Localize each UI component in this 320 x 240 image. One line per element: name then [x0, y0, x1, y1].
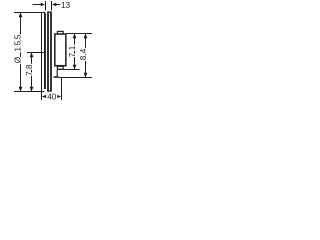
dim 155 top extension	[14, 12, 45, 14]
dim 78 line	[30, 53, 34, 92]
right bottom extension line (84 bottom)	[59, 77, 92, 79]
svg-text:71: 71	[68, 43, 77, 57]
dim 13 arrows and tails	[33, 3, 61, 7]
label diameter 155	[13, 33, 22, 63]
knob bottom cap	[57, 66, 63, 69]
dim 71 line	[73, 34, 77, 70]
dim 84 line	[84, 34, 88, 78]
dim 40 right extension	[61, 78, 63, 100]
svg-text:13: 13	[61, 1, 71, 10]
label 13	[61, 1, 71, 10]
label 78	[25, 62, 34, 76]
knob body	[55, 34, 66, 66]
dim 78 top extension	[27, 52, 45, 54]
wall flange back line	[41, 13, 43, 89]
right top extension line	[66, 33, 92, 35]
label 40	[47, 93, 57, 102]
dim 155/78 bottom extension	[14, 91, 44, 93]
dim 40 left extension	[41, 89, 43, 100]
plate disc profile	[47, 12, 52, 91]
svg-text:Ø 155: Ø 155	[13, 33, 22, 63]
label 71	[68, 43, 77, 57]
svg-text:40: 40	[47, 93, 57, 102]
svg-text:84: 84	[79, 46, 88, 60]
right mid extension line (71 bottom)	[57, 69, 79, 71]
knob top cap	[57, 31, 63, 34]
dim 13 extension lines	[46, 1, 52, 11]
knob neck step	[54, 70, 59, 78]
label 84	[79, 46, 88, 60]
wall line	[44, 13, 46, 89]
dim 155 line	[19, 13, 23, 92]
dim 40 arrows	[42, 95, 61, 99]
svg-text:78: 78	[25, 62, 34, 76]
